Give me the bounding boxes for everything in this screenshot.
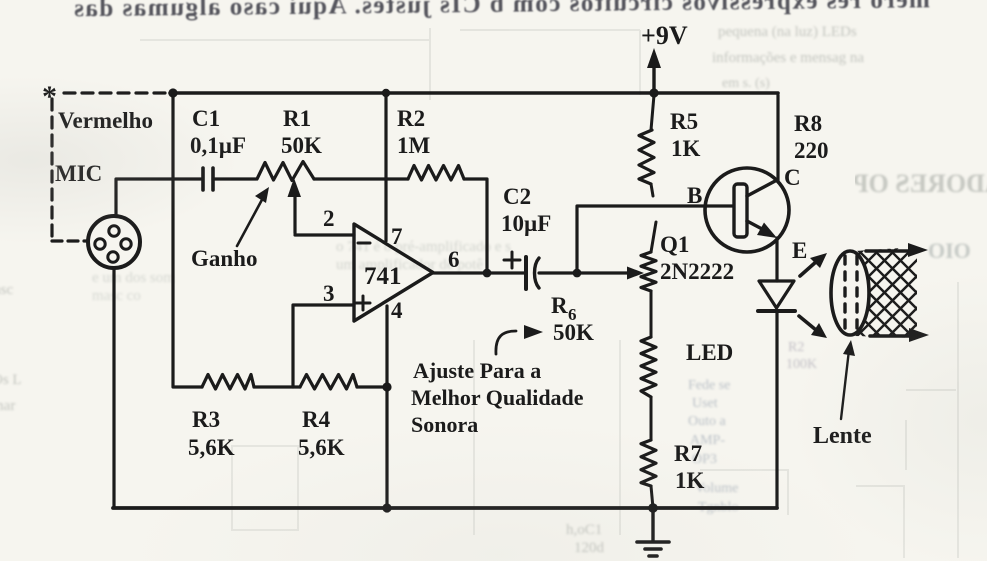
- svg-text:1M: 1M: [397, 133, 431, 158]
- wire pin3 input: [293, 305, 354, 387]
- wire C1 to R1: [213, 177, 256, 180]
- node junction dot ground: [648, 503, 658, 513]
- svg-text:1K: 1K: [675, 468, 705, 493]
- wire left bias vertical (rail to R3): [173, 95, 202, 387]
- wire R3 to R4: [254, 385, 300, 388]
- transistor Q1 2N2222: [705, 168, 789, 252]
- potentiometer R6 (50K) body: [641, 222, 656, 440]
- svg-text:Vermelho: Vermelho: [58, 108, 153, 133]
- wire R2 to output (feedback): [464, 179, 487, 270]
- wire op-amp output: [433, 271, 524, 274]
- power +9V arrow: [647, 48, 661, 90]
- label Lente with arrow: [813, 340, 872, 449]
- resistor R1 (50K pot): [257, 162, 314, 181]
- svg-text:*: *: [42, 80, 57, 113]
- wire collector to rail: [776, 95, 779, 181]
- svg-text:Ganho: Ganho: [191, 246, 257, 271]
- wire R1 to R2: [314, 177, 408, 180]
- svg-text:741: 741: [364, 263, 402, 290]
- ground symbol: [637, 510, 669, 556]
- svg-text:6: 6: [448, 247, 460, 272]
- svg-text:10µF: 10µF: [501, 211, 551, 236]
- label plus input: [356, 296, 370, 310]
- resistor R7: [641, 440, 656, 508]
- svg-text:Ajuste Para a: Ajuste Para a: [413, 358, 541, 383]
- resistor R4: [300, 375, 357, 390]
- svg-text:R8: R8: [794, 111, 822, 136]
- node junction dot R5 rail: [649, 88, 658, 97]
- svg-text:R7: R7: [674, 441, 702, 466]
- svg-text:+9V: +9V: [641, 21, 688, 50]
- svg-text:C: C: [784, 165, 801, 190]
- svg-text:Q1: Q1: [660, 232, 689, 257]
- resistor R3: [202, 375, 254, 390]
- svg-text:1K: 1K: [671, 136, 701, 161]
- svg-text:B: B: [687, 183, 702, 208]
- capacitor C2: [504, 252, 539, 289]
- svg-text:2N2222: 2N2222: [660, 259, 734, 284]
- svg-text:E: E: [792, 238, 807, 263]
- svg-text:4: 4: [391, 298, 403, 323]
- wiper arrowhead into R6: [627, 267, 644, 280]
- svg-text:R5: R5: [670, 109, 698, 134]
- node junction dot base tap: [573, 269, 582, 278]
- wire emitter down to LED: [775, 238, 778, 281]
- wire MIC top lead: [116, 179, 201, 216]
- svg-text:5,6K: 5,6K: [298, 435, 345, 460]
- wire pin7 supply vertical: [384, 95, 387, 241]
- node junction dot left rail: [168, 88, 177, 97]
- svg-text:R3: R3: [192, 407, 220, 432]
- wire dashed bottom of MIC box: [52, 239, 88, 242]
- svg-text:50K: 50K: [553, 320, 594, 345]
- svg-text:R: R: [551, 293, 568, 318]
- wire R1 wiper to pin2: [288, 178, 355, 235]
- wire dashed left of MIC box: [50, 99, 53, 241]
- svg-text:Sonora: Sonora: [411, 412, 478, 437]
- ground rail (bottom): [113, 506, 777, 510]
- svg-text:0,1µF: 0,1µF: [190, 133, 246, 158]
- resistor R2: [408, 166, 464, 181]
- svg-text:7: 7: [391, 224, 403, 249]
- node junction dot pin4 rail: [382, 503, 391, 512]
- svg-text:LED: LED: [686, 340, 733, 365]
- wire R4 to pin4 line: [357, 385, 387, 388]
- label Ganho with arrow: [191, 187, 269, 271]
- lens (Lente): [705, 230, 987, 360]
- wire dashed top of MIC box: [64, 91, 170, 94]
- light emission arrows: [799, 253, 827, 338]
- svg-text:C1: C1: [192, 106, 220, 131]
- wire base tap vertical and base wire: [577, 206, 733, 273]
- wire pin4 ground vertical: [385, 306, 388, 508]
- wire LED to ground rail: [775, 311, 778, 508]
- svg-text:Melhor Qualidade: Melhor Qualidade: [411, 385, 584, 410]
- resistor R5: [639, 95, 654, 196]
- svg-text:220: 220: [794, 138, 829, 163]
- wire MIC bottom lead: [112, 268, 115, 507]
- svg-text:C2: C2: [503, 184, 531, 209]
- svg-text:R4: R4: [302, 407, 331, 432]
- svg-text:3: 3: [323, 281, 335, 306]
- svg-text:Lente: Lente: [813, 423, 872, 449]
- svg-text:5,6K: 5,6K: [188, 435, 235, 460]
- node junction dot feedback: [483, 269, 492, 278]
- svg-text:R2: R2: [397, 106, 425, 131]
- node junction dot R4: [382, 382, 391, 391]
- label Ajuste Para a Melhor Qualidade Sonora with curved arrow: [411, 325, 584, 437]
- svg-text:MIC: MIC: [55, 161, 102, 186]
- svg-text:2: 2: [323, 206, 335, 231]
- node junction dot pin7 rail: [382, 89, 390, 97]
- wire C2 to R6 wiper: [539, 271, 630, 274]
- svg-text:50K: 50K: [281, 133, 322, 158]
- op-amp U1 741: [354, 224, 433, 321]
- svg-text:R1: R1: [283, 106, 311, 131]
- LED D1: [758, 281, 795, 311]
- label minus input: [358, 242, 370, 245]
- wire +9V rail (top): [170, 91, 778, 95]
- capacitor C1: [203, 168, 213, 190]
- microphone MIC: [88, 216, 140, 268]
